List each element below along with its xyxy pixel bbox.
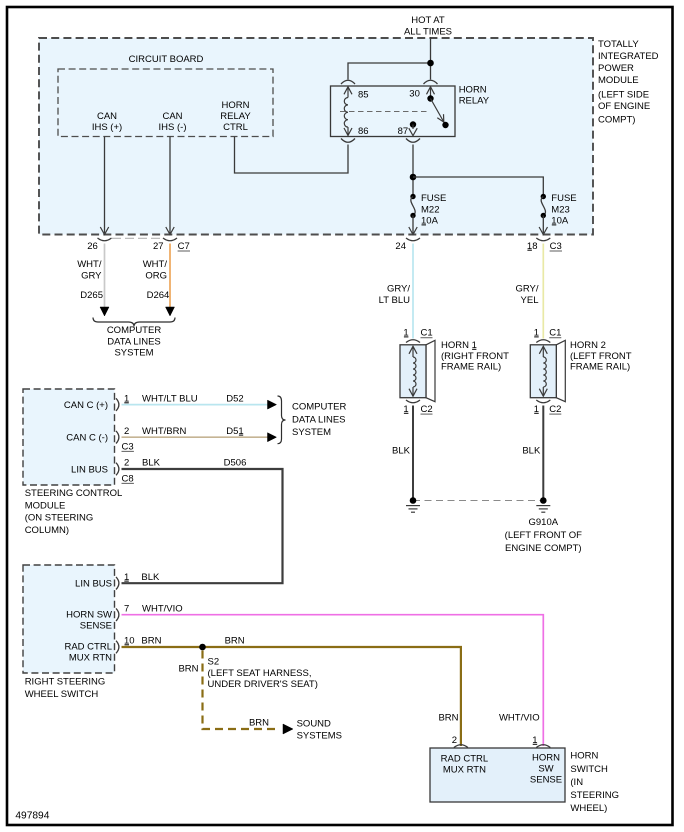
svg-text:FRAME RAIL): FRAME RAIL) (570, 362, 630, 373)
svg-text:STEERING: STEERING (570, 790, 619, 801)
svg-text:D265: D265 (80, 290, 103, 301)
connector arc horn2 C1 (536, 340, 550, 343)
wire WHT/BRN CAN C- (122, 436, 269, 438)
svg-text:(LEFT FRONT: (LEFT FRONT (570, 351, 632, 362)
digit bar fuse M22 10A digit1 (422, 224, 427, 226)
digit bar horn2 C1 pin1 (534, 336, 539, 338)
arrow D52 into data lines (268, 400, 277, 409)
horn 1 flap (426, 340, 435, 401)
svg-text:G910A: G910A (529, 517, 559, 528)
wire GRY/LT BLU horn1 feed (412, 244, 414, 339)
svg-text:FUSE: FUSE (551, 193, 576, 204)
svg-text:COLUMN): COLUMN) (25, 525, 69, 536)
svg-text:M23: M23 (551, 204, 569, 215)
connector C3 underline SCM (122, 450, 134, 452)
digit bar RSWS pin1 (124, 580, 129, 582)
svg-text:SYSTEM: SYSTEM (292, 427, 331, 438)
svg-text:ORG: ORG (145, 271, 167, 282)
digit bar horn1 C2 pin1 (404, 412, 409, 414)
svg-text:WHT/VIO: WHT/VIO (499, 713, 540, 724)
svg-text:BRN: BRN (178, 664, 198, 675)
svg-text:BLK: BLK (141, 572, 160, 583)
connector arc horn switch pin 1 (536, 745, 550, 748)
fuse M23 element (541, 197, 545, 216)
svg-text:RELAY: RELAY (220, 111, 251, 122)
svg-text:HORN: HORN (570, 751, 598, 762)
wire pin 87 down to fuse junction (412, 145, 414, 197)
svg-text:86: 86 (358, 126, 369, 137)
svg-text:SYSTEMS: SYSTEMS (297, 731, 342, 742)
brace computer data lines horizontal (93, 318, 175, 327)
svg-text:HORN 1: HORN 1 (441, 340, 477, 351)
svg-text:C1: C1 (549, 328, 561, 339)
module circuit board box (58, 69, 273, 137)
wire WHT/ORG (169, 244, 171, 308)
digit bar horn1 C1 pin1 (404, 336, 409, 338)
horn 2 coil winding (543, 357, 546, 387)
svg-text:CAN: CAN (162, 111, 182, 122)
svg-text:UNDER DRIVER'S SEAT): UNDER DRIVER'S SEAT) (208, 679, 318, 690)
svg-text:7: 7 (124, 604, 129, 615)
ground G910A dot (540, 497, 547, 504)
wire fuse M23 to pin 18 (542, 216, 544, 234)
svg-text:C2: C2 (549, 404, 561, 415)
svg-text:LT BLU: LT BLU (379, 295, 410, 306)
svg-text:WHEEL): WHEEL) (570, 803, 607, 814)
wire BRN rad ctrl mux rtn (122, 647, 461, 746)
relay switch contact dot (442, 122, 448, 128)
svg-text:D52: D52 (226, 394, 243, 405)
svg-text:(LEFT SEAT HARNESS,: (LEFT SEAT HARNESS, (208, 668, 312, 679)
svg-text:HORN SW: HORN SW (66, 609, 112, 620)
svg-text:DATA LINES: DATA LINES (292, 414, 346, 425)
connector arc relay pin 30 top (424, 80, 438, 84)
svg-text:GRY: GRY (81, 271, 102, 282)
svg-text:WHT/BRN: WHT/BRN (142, 426, 186, 437)
relay coil lead bottom (347, 127, 349, 135)
relay coil arrow up pin 85 (344, 87, 352, 95)
horn 1 box (400, 345, 426, 398)
wire CAN IHS (+) drop (104, 137, 106, 234)
wire GRY/YEL horn2 feed (542, 244, 544, 339)
svg-text:HOT AT: HOT AT (411, 15, 445, 26)
svg-text:COMPT): COMPT) (598, 115, 635, 126)
connector arc horn1 C1 (406, 340, 420, 343)
svg-text:LIN BUS: LIN BUS (75, 578, 112, 589)
arrow pin 26 exits TIPM (100, 227, 108, 235)
svg-text:POWER: POWER (598, 63, 634, 74)
svg-text:2: 2 (124, 458, 129, 469)
svg-text:LIN BUS: LIN BUS (71, 464, 108, 475)
svg-text:BRN: BRN (438, 713, 458, 724)
module steering control module box (23, 389, 115, 485)
svg-text:HORN 2: HORN 2 (570, 340, 606, 351)
connector arc horn switch pin 2 (454, 745, 468, 748)
svg-text:C1: C1 (421, 328, 433, 339)
svg-text:(IN: (IN (570, 777, 583, 788)
ground G910A symbol (536, 506, 550, 513)
relay pin 30 arrow up (427, 87, 435, 95)
wire horn relay ctrl to pin 86 (235, 137, 349, 174)
svg-text:COMPUTER: COMPUTER (292, 402, 347, 413)
horn 2 coil arrow down (539, 389, 547, 397)
junction fuse feed (410, 174, 417, 181)
module right steering wheel switch box (23, 565, 115, 673)
svg-text:WHT/: WHT/ (77, 259, 102, 270)
connector arc RSWS pin 10 (116, 641, 119, 654)
svg-text:MODULE: MODULE (25, 500, 66, 511)
wire BLK D506 lin bus (122, 469, 283, 583)
junction S2 dot (199, 644, 206, 651)
connector arc RSWS pin 7 (116, 608, 119, 621)
fuse M22 element (411, 197, 415, 216)
wire CAN IHS (-) drop (169, 137, 171, 234)
svg-text:MUX RTN: MUX RTN (69, 653, 112, 664)
svg-text:FRAME RAIL): FRAME RAIL) (441, 362, 501, 373)
wire hot feed to coil branch horizontal (348, 63, 431, 80)
connector arc RSWS pin 1 (116, 577, 119, 590)
svg-text:RAD CTRL: RAD CTRL (441, 754, 489, 765)
connector arc SCM pin 2 (116, 431, 119, 444)
digit bar fuse M23 10A digit1 (552, 224, 557, 226)
digit bar pin 18 digit1 (527, 249, 532, 251)
digit bar HORN 1 digit1 (472, 348, 476, 350)
svg-text:WHT/LT BLU: WHT/LT BLU (142, 394, 198, 405)
svg-text:BRN: BRN (249, 718, 269, 729)
svg-text:GRY/: GRY/ (515, 283, 538, 294)
svg-text:C3: C3 (122, 441, 134, 452)
wire WHT/GRY (104, 244, 106, 308)
svg-text:YEL: YEL (521, 295, 539, 306)
connector C2 underline horn2 (549, 413, 561, 415)
relay switch blade (431, 99, 446, 126)
svg-text:(LEFT SIDE: (LEFT SIDE (598, 89, 649, 100)
svg-text:WHT/VIO: WHT/VIO (142, 604, 183, 615)
relay pin 87 lead (412, 125, 414, 130)
horn 1 coil winding (413, 357, 416, 387)
svg-text:BRN: BRN (225, 636, 245, 647)
svg-text:SOUND: SOUND (297, 719, 331, 730)
svg-text:(RIGHT FRONT: (RIGHT FRONT (441, 351, 509, 362)
connector C2 underline horn1 (421, 413, 433, 415)
arrow pin 27 exits TIPM (166, 227, 174, 235)
svg-text:WHT/: WHT/ (143, 259, 168, 270)
svg-text:SW: SW (538, 764, 553, 775)
relay pin 30 lead (430, 87, 432, 99)
svg-text:C2: C2 (421, 404, 433, 415)
svg-text:497894: 497894 (15, 810, 49, 821)
svg-text:IHS (+): IHS (+) (92, 122, 122, 133)
wire hot feed to pin 30 (430, 63, 432, 80)
ground link dashed (413, 500, 543, 502)
arrow to sound systems (283, 724, 293, 734)
relay switch pivot dot (427, 95, 433, 101)
arrow D264 into data lines (166, 307, 175, 316)
arrow D265 into data lines (100, 307, 109, 316)
svg-text:D506: D506 (224, 458, 247, 469)
svg-text:CIRCUIT BOARD: CIRCUIT BOARD (129, 54, 204, 65)
svg-text:HORN: HORN (459, 85, 487, 96)
connector C1 underline horn1 (421, 337, 433, 339)
svg-text:ALL TIMES: ALL TIMES (404, 27, 452, 38)
connector arc SCM pin 2 C8 (116, 463, 119, 476)
connector arc pin 26 (98, 238, 112, 241)
svg-text:BRN: BRN (141, 636, 161, 647)
connector arc relay pin 85 top (341, 80, 355, 84)
fuse M23 top dot (541, 194, 546, 199)
svg-text:ENGINE COMPT): ENGINE COMPT) (505, 543, 582, 554)
svg-text:CTRL: CTRL (223, 122, 248, 133)
svg-text:27: 27 (153, 241, 164, 252)
arrow D51 into data lines (268, 433, 277, 442)
svg-text:BLK: BLK (522, 445, 541, 456)
svg-text:DATA LINES: DATA LINES (107, 336, 161, 347)
svg-text:RELAY: RELAY (459, 95, 490, 106)
svg-text:INTEGRATED: INTEGRATED (598, 51, 659, 62)
digit bar D51 digit1 (239, 434, 243, 436)
connector arc SCM pin 1 (116, 398, 119, 411)
svg-text:2: 2 (124, 426, 129, 437)
svg-text:CAN C (-): CAN C (-) (66, 433, 108, 444)
svg-text:BLK: BLK (142, 458, 161, 469)
horn 2 coil lead top (542, 347, 544, 358)
svg-text:C3: C3 (550, 241, 562, 252)
svg-text:26: 26 (87, 241, 98, 252)
connector arc relay pin 86 bottom (341, 139, 355, 143)
relay switch blade arrowhead (437, 114, 444, 122)
horn 2 box (530, 345, 556, 398)
svg-text:GRY/: GRY/ (387, 283, 410, 294)
relay coil lead top (347, 87, 349, 98)
svg-text:85: 85 (358, 89, 369, 100)
wire BRN dashed to sound systems (203, 651, 280, 730)
wire fuse M22 to pin 24 (412, 216, 414, 234)
horn 2 coil arrow up (539, 346, 547, 354)
svg-text:SWITCH: SWITCH (570, 764, 608, 775)
brace computer data lines vertical (278, 396, 286, 444)
connector arc relay pin 87 bottom (406, 139, 420, 143)
connector arc horn1 C2 (406, 400, 420, 403)
svg-text:CAN C (+): CAN C (+) (64, 400, 108, 411)
svg-text:IHS (-): IHS (-) (159, 122, 187, 133)
horn 2 flap (556, 340, 565, 401)
ground G1 dot (410, 497, 417, 504)
arrow pin 24 exits TIPM (409, 227, 417, 235)
svg-text:STEERING CONTROL: STEERING CONTROL (25, 488, 123, 499)
connector C3 underline (550, 250, 562, 252)
svg-text:87: 87 (398, 126, 409, 137)
wire BLK horn2 ground (542, 406, 544, 501)
svg-text:2: 2 (452, 735, 457, 746)
digit bar SCM pin1 (124, 402, 129, 404)
relay pin 87 arrow down (409, 128, 417, 136)
svg-text:C8: C8 (122, 473, 134, 484)
svg-text:OF ENGINE: OF ENGINE (598, 101, 650, 112)
svg-text:S2: S2 (208, 657, 220, 668)
horn 1 coil arrow up (409, 346, 417, 354)
svg-text:BLK: BLK (392, 445, 411, 456)
svg-text:FUSE: FUSE (421, 193, 446, 204)
connector C7 underline (178, 250, 190, 252)
horn 1 coil lead top (412, 347, 414, 358)
wire hot feed vertical (430, 37, 432, 63)
connector C8 underline SCM (122, 482, 134, 484)
svg-text:M22: M22 (421, 204, 439, 215)
svg-text:24: 24 (395, 241, 406, 252)
relay coil winding (344, 98, 348, 128)
svg-text:WHEEL SWITCH: WHEEL SWITCH (25, 689, 99, 700)
svg-text:SENSE: SENSE (80, 621, 112, 632)
svg-text:MODULE: MODULE (598, 75, 639, 86)
horn 2 coil lead bottom (542, 387, 544, 396)
fuse M23 bottom dot (541, 213, 546, 218)
svg-text:SENSE: SENSE (530, 775, 562, 786)
relay mechanical link dashed (340, 111, 429, 113)
fuse M22 bottom dot (410, 213, 415, 218)
connector arc horn2 C2 (536, 400, 550, 403)
svg-text:RIGHT STEERING: RIGHT STEERING (25, 677, 106, 688)
digit bar horn2 C2 pin1 (534, 412, 539, 414)
svg-text:RAD CTRL: RAD CTRL (64, 642, 112, 653)
connector arc pin 24 (406, 238, 420, 241)
connector arc pin 27 (163, 238, 177, 241)
relay coil arrow down pin 86 (344, 128, 352, 136)
svg-text:SYSTEM: SYSTEM (114, 347, 153, 358)
junction hot feed (427, 60, 434, 67)
arrow pin 18 exits TIPM (539, 227, 547, 235)
svg-text:D264: D264 (147, 290, 170, 301)
svg-text:30: 30 (409, 88, 420, 99)
wire WHT/VIO horn sw sense (122, 615, 544, 746)
digit bar RSWS pin10 (125, 644, 130, 646)
svg-text:(LEFT FRONT OF: (LEFT FRONT OF (505, 530, 582, 541)
fuse M22 top dot (410, 194, 415, 199)
wire WHT/LT BLU CAN C+ (122, 404, 269, 406)
svg-text:CAN: CAN (97, 111, 117, 122)
svg-text:C7: C7 (178, 241, 190, 252)
svg-text:COMPUTER: COMPUTER (107, 325, 162, 336)
switch horn switch box (430, 748, 565, 802)
connector arc pin 18 (536, 238, 550, 241)
wire BLK horn1 ground (412, 406, 414, 501)
svg-text:(ON STEERING: (ON STEERING (25, 513, 94, 524)
wire branch to fuse M23 (413, 177, 543, 197)
svg-text:HORN: HORN (222, 100, 250, 111)
svg-text:TOTALLY: TOTALLY (598, 39, 639, 50)
connector C7 dashed link (112, 237, 163, 239)
horn 1 coil lead bottom (412, 387, 414, 396)
digit bar horn switch pin1 (533, 743, 538, 745)
ground G1 symbol (406, 506, 420, 513)
horn 1 coil arrow down (409, 389, 417, 397)
connector C1 underline horn2 (549, 337, 561, 339)
svg-text:HORN: HORN (532, 753, 560, 764)
relay K1 horn relay box (331, 86, 456, 137)
svg-text:MUX RTN: MUX RTN (443, 765, 486, 776)
module TIPM (Totally Integrated Power Module) box (39, 38, 593, 235)
relay pin 87 dot (410, 121, 416, 127)
